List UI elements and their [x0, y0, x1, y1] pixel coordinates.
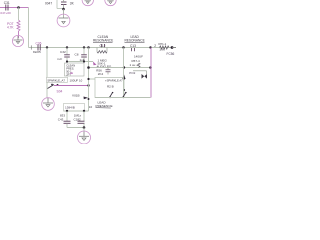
capacitor C36	[33, 41, 42, 54]
node rail2 right	[149, 66, 152, 69]
node on rail G	[171, 46, 174, 49]
node below box right	[83, 110, 85, 112]
svg-text:C36: C36	[36, 41, 42, 45]
node on rail C	[83, 46, 85, 48]
node on rail D	[87, 46, 89, 48]
svg-text:RESONANCE: RESONANCE	[125, 39, 145, 43]
svg-text:m.F: m.F	[57, 57, 62, 61]
label LEAD PRESENCE	[96, 100, 113, 108]
wire V01B stub	[89, 78, 96, 80]
wire center column	[88, 48, 90, 112]
contact tick on rail	[30, 45, 32, 49]
svg-text:.047+00: .047+00	[0, 11, 11, 15]
node on rail B	[66, 46, 68, 48]
second rail wire	[89, 67, 151, 69]
node cap join left	[66, 60, 68, 62]
node cathode	[88, 98, 90, 100]
box LEAD DRIVE	[95, 78, 124, 98]
tube T1	[57, 14, 70, 27]
wire below box	[64, 110, 89, 112]
node rail2 mid	[123, 66, 125, 68]
resistor 37K/39K on rail right	[154, 42, 169, 52]
tube T2 top edge	[82, 0, 93, 6]
wire input top-left magenta	[0, 7, 29, 9]
node rail2 left	[87, 66, 90, 69]
svg-text:C43: C43	[58, 117, 64, 121]
svg-text:FC56: FC56	[167, 52, 175, 56]
triode grid arrow V01B	[84, 97, 89, 100]
node on rail F	[149, 46, 151, 48]
svg-text:R2 B: R2 B	[107, 84, 114, 88]
node below box left	[66, 110, 68, 112]
svg-text:SPARKLE_A7: SPARKLE_A7	[47, 79, 65, 83]
node cap join right	[83, 60, 85, 62]
svg-text:10: 10	[89, 105, 93, 109]
svg-text:C32: C32	[60, 50, 66, 54]
svg-text:2: 2	[154, 44, 156, 48]
capacitor C43	[58, 111, 71, 128]
wiper arrow magenta	[93, 62, 97, 66]
node on rail A	[46, 46, 48, 48]
svg-text:V01B: V01B	[72, 94, 80, 98]
node box top right arrow	[122, 75, 125, 80]
svg-text:2K4: 2K4	[98, 72, 104, 76]
wire into tube T1	[63, 9, 65, 18]
svg-text:C8: C8	[75, 52, 79, 56]
box CLEAN PRES	[65, 63, 85, 76]
svg-text:+SPARKLE A7: +SPARKLE A7	[105, 79, 123, 83]
node on rail E	[122, 46, 124, 48]
wire pot to ground circle	[18, 31, 20, 38]
svg-text:C31: C31	[4, 1, 10, 5]
wire down from junction	[18, 8, 20, 21]
node plate T1	[62, 8, 65, 11]
switch S04	[48, 84, 63, 94]
box 1584/B	[64, 104, 85, 112]
wire vertical from top wire corner down to main rail	[28, 8, 30, 48]
node V01B grid	[87, 84, 89, 86]
svg-text:4.7K: 4.7K	[7, 26, 14, 30]
wire bottom join	[67, 127, 84, 129]
svg-text:PO2: PO2	[129, 71, 135, 75]
ground symbol in circle bottom-left	[42, 98, 55, 111]
capacitor 0047 top	[45, 0, 75, 9]
capacitor C18	[74, 111, 85, 128]
wire joining caps	[67, 61, 93, 63]
svg-text:0047: 0047	[45, 1, 52, 5]
wire main rail	[29, 47, 177, 49]
resistor 1MEG below C12	[97, 48, 112, 69]
svg-text:1584/B: 1584/B	[65, 106, 75, 110]
wire right column magenta	[150, 48, 152, 98]
capacitor C13	[130, 44, 136, 51]
node box mid right	[123, 89, 125, 91]
svg-text:C182: C182	[74, 117, 82, 121]
capacitor C12	[100, 44, 106, 48]
svg-text:C13: C13	[130, 44, 136, 48]
capacitor C32	[57, 48, 70, 62]
resistor R56 2K4	[96, 68, 110, 77]
node bottom join	[83, 126, 86, 129]
capacitor C8	[75, 48, 87, 62]
svg-text:S04: S04	[57, 90, 63, 94]
wire magenta to V01B grid	[54, 85, 89, 87]
svg-text:1 ou: 1 ou	[130, 63, 136, 67]
tube T3 top edge	[105, 0, 116, 6]
wire left column down	[46, 48, 48, 99]
svg-text:82/25: 82/25	[33, 50, 41, 54]
node stub	[87, 78, 89, 80]
label LEAD RESONANCE	[125, 35, 145, 42]
capacitor C31	[0, 1, 11, 15]
wire rail end stub	[172, 47, 176, 49]
tick magenta small	[70, 72, 73, 74]
switch lever 1	[109, 92, 113, 98]
svg-text:39K: 39K	[160, 48, 166, 52]
wire bottom rail	[95, 97, 151, 99]
resistor R57-4 cluster	[129, 55, 147, 79]
potentiometer POT 4.7K	[7, 20, 20, 31]
switch lever 2	[122, 92, 126, 98]
svg-text:100UF 10: 100UF 10	[70, 78, 83, 82]
svg-text:RESONANCE: RESONANCE	[93, 39, 113, 43]
node junction top-left	[17, 6, 20, 9]
label CLEAN RESONANCE	[93, 35, 113, 42]
wire right column of box	[123, 48, 125, 98]
svg-text:PRESENCE: PRESENCE	[96, 104, 113, 108]
label box SPARKLE A7	[47, 77, 68, 82]
ground symbol in circle bottom-center	[78, 131, 91, 144]
wire to bottom ground	[83, 128, 85, 132]
ground symbol in circle left	[12, 35, 23, 46]
